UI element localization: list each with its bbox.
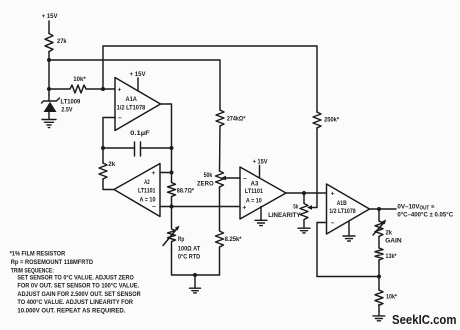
resistor 13k [375, 248, 383, 260]
svg-text:10.000V OUT. REPEAT AS REQUIRE: 10.000V OUT. REPEAT AS REQUIRED. [17, 307, 125, 314]
svg-text:A3: A3 [251, 181, 259, 188]
svg-text:0V–10VOUT ≡: 0V–10VOUT ≡ [397, 203, 434, 211]
wire A1B output [370, 208, 397, 210]
svg-text:2k: 2k [108, 161, 115, 168]
resistor 2k [99, 163, 107, 179]
svg-text:100Ω AT: 100Ω AT [178, 246, 201, 253]
wire A2 noninverting input [160, 172, 172, 174]
svg-text:−: − [152, 204, 156, 211]
ground [42, 120, 56, 128]
wire top rail to 250k [103, 46, 317, 112]
node output label [397, 203, 453, 218]
svg-text:ADJUST GAIN FOR 2.500V OUT. SE: ADJUST GAIN FOR 2.500V OUT. SET SENSOR [17, 291, 141, 298]
node junction dot [193, 273, 197, 277]
node junction dot [47, 58, 51, 62]
svg-text:Rp = ROSEMOUNT 118MFRTD: Rp = ROSEMOUNT 118MFRTD [11, 259, 94, 266]
resistor 250k [313, 112, 321, 128]
ground [343, 236, 355, 241]
resistor 10k [49, 85, 103, 93]
svg-text:A2: A2 [144, 179, 150, 186]
svg-text:274kΩ*: 274kΩ* [227, 116, 246, 123]
wire to A1A noninverting input [103, 88, 115, 90]
wire A3 output to A1B noninverting input [286, 192, 327, 194]
svg-text:+: + [152, 170, 156, 177]
svg-text:LINEARITY: LINEARITY [268, 212, 301, 219]
wire [48, 21, 50, 34]
resistor 88.7 ohm [168, 173, 176, 207]
wire [378, 209, 380, 221]
svg-text:1/2 LT1078: 1/2 LT1078 [117, 105, 146, 112]
svg-text:+: + [243, 205, 247, 212]
resistor 10k [375, 290, 383, 305]
wire [48, 52, 50, 96]
svg-text:1/2 LT1078: 1/2 LT1078 [329, 208, 356, 215]
wire [378, 305, 380, 316]
node junction dot [377, 207, 381, 211]
resistor 274k [216, 110, 224, 126]
svg-text:0.1µF: 0.1µF [130, 130, 150, 137]
wire feedback to A1B inverting input [317, 276, 379, 278]
svg-text:−: − [331, 220, 335, 227]
capacitor 0.1uF [135, 142, 141, 156]
wire [378, 237, 380, 249]
ground [255, 220, 267, 225]
svg-text:−: − [243, 176, 247, 183]
node junction dot [47, 87, 51, 91]
wire [49, 60, 220, 110]
svg-text:GAIN: GAIN [385, 238, 402, 245]
node +15V pin A1A [130, 71, 146, 78]
svg-text:10k*: 10k* [386, 294, 397, 301]
wire wiper of 50k to A3 inverting input [226, 177, 240, 179]
svg-text:10k*: 10k* [73, 76, 86, 83]
wire 250k down to 5k wiper [312, 128, 317, 208]
svg-text:0°C RTD: 0°C RTD [178, 253, 200, 261]
svg-text:27k: 27k [57, 38, 67, 45]
node junction dot [101, 146, 105, 150]
variable resistor Rp 100 ohm RTD [168, 229, 176, 249]
node +15V supply top-left [42, 13, 58, 20]
svg-text:SET SENSOR TO 0°C VALUE. ADJUS: SET SENSOR TO 0°C VALUE. ADJUST ZERO [17, 274, 133, 282]
svg-text:2.5V: 2.5V [61, 107, 72, 114]
node junction dot [302, 191, 306, 195]
op-amp A2 LT1101 A=10 (points left) [114, 164, 160, 217]
wire A3 ground pin [260, 207, 262, 221]
wire [172, 249, 220, 275]
wire A1A inverting input [103, 118, 115, 164]
ground [298, 228, 310, 233]
svg-text:0°C–400°C ± 0.05°C: 0°C–400°C ± 0.05°C [397, 210, 453, 218]
svg-text:A = 10: A = 10 [140, 196, 156, 203]
svg-text:Rp: Rp [178, 236, 184, 243]
svg-text:ZERO: ZERO [197, 180, 214, 187]
zener diode LT1009 2.5V [48, 95, 50, 101]
op-amp A1A 1/2 LT1078 [115, 78, 161, 131]
svg-text:A1A: A1A [126, 96, 138, 103]
wire Rp branch [171, 207, 173, 229]
svg-text:+ 15V: + 15V [130, 71, 146, 78]
potentiometer 50k ZERO [216, 171, 224, 187]
node junction dot [101, 87, 105, 91]
node junction dot [377, 275, 381, 279]
wire [141, 147, 172, 149]
svg-text:88.7Ω*: 88.7Ω* [177, 188, 194, 195]
node SeekIC.com watermark [392, 312, 457, 327]
ground [190, 288, 201, 293]
resistor 27k [45, 34, 53, 52]
wire A2 inverting row to A3 noninverting input [160, 206, 240, 208]
node junction dot [170, 205, 174, 209]
svg-text:8.25k*: 8.25k* [225, 236, 242, 243]
svg-text:2k: 2k [386, 230, 393, 237]
wire [103, 147, 135, 149]
wire A1B ground pin [348, 221, 350, 235]
wire [378, 260, 380, 290]
svg-text:−: − [118, 115, 122, 122]
wire ground stem [194, 275, 196, 288]
potentiometer 5k LINEARITY [300, 193, 308, 228]
svg-text:+ 15V: + 15V [42, 13, 58, 20]
svg-text:TO 400°C VALUE. ADJUST LINEARI: TO 400°C VALUE. ADJUST LINEARITY FOR [17, 298, 133, 306]
svg-text:+: + [118, 87, 122, 94]
wire A1B inverting input feedback [317, 223, 327, 277]
variable resistor 2k GAIN [375, 221, 383, 236]
svg-text:TRIM SEQUENCE:: TRIM SEQUENCE: [11, 267, 54, 274]
svg-text:250k*: 250k* [324, 117, 339, 124]
wire 2k to A2 output [103, 179, 114, 190]
svg-text:+: + [331, 191, 335, 198]
svg-text:LT1009: LT1009 [61, 99, 81, 106]
node +15V pin A3 [253, 159, 268, 166]
svg-text:*1% FILM RESISTOR: *1% FILM RESISTOR [10, 251, 66, 258]
svg-text:LT1101: LT1101 [138, 187, 156, 194]
svg-text:SeekIC.com: SeekIC.com [392, 312, 457, 327]
svg-text:13k*: 13k* [386, 253, 397, 260]
svg-text:LT1101: LT1101 [245, 188, 264, 195]
op-amp A1B 1/2 LT1078 [327, 184, 370, 234]
node junction dot [170, 171, 174, 175]
svg-text:FOR 0V OUT. SET SENSOR TO 100°: FOR 0V OUT. SET SENSOR TO 100°C VALUE. [17, 282, 139, 290]
resistor 8.25k [216, 207, 224, 276]
wire [219, 126, 222, 171]
svg-text:A = 10: A = 10 [246, 198, 262, 205]
node junction dot [170, 146, 174, 150]
wire A1A output [161, 104, 172, 173]
op-amp A3 LT1101 A=10 [240, 167, 286, 219]
svg-text:50k: 50k [204, 172, 213, 179]
node trim sequence note [10, 251, 141, 315]
svg-text:5k: 5k [293, 204, 298, 211]
svg-text:+ 15V: + 15V [253, 159, 268, 166]
wire [219, 187, 221, 207]
ground [373, 316, 385, 321]
svg-text:A1B: A1B [337, 200, 347, 207]
